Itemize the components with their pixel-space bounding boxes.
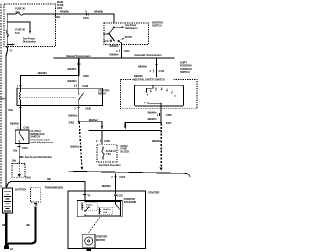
wire relay coil to clutch switch — [10, 106, 30, 131]
svg-text:Distribution: Distribution — [125, 27, 138, 30]
svg-text:MOTOR: MOTOR — [96, 238, 105, 242]
wire solenoid bottom rail — [85, 214, 120, 216]
wire neutral safety out to S447 — [148, 106, 172, 123]
wire arrow to power distribution lower — [7, 43, 15, 45]
svg-text:Wht/Blk: Wht/Blk — [94, 10, 103, 14]
ignition switch box (dashed) — [104, 23, 149, 45]
svg-text:SWITCH: SWITCH — [180, 70, 190, 74]
svg-text:BAT: BAT — [103, 32, 108, 36]
svg-text:Closed with clutch: Closed with clutch — [31, 138, 51, 141]
svg-text:pedal fully depressed: pedal fully depressed — [31, 142, 54, 144]
svg-text:Blk/Wht: Blk/Wht — [152, 139, 161, 143]
wire S447 branch to bus — [124, 123, 161, 130]
wire transmission bus — [54, 57, 175, 59]
wire S463 down to starter rail — [70, 122, 83, 170]
svg-text:SOLENOID: SOLENOID — [124, 200, 137, 204]
svg-text:C410: C410 — [83, 16, 89, 20]
svg-text:STARTER: STARTER — [148, 190, 159, 194]
wire S463 branch to bus — [79, 118, 103, 130]
svg-text:C412: C412 — [124, 49, 130, 53]
starter box STARTER — [68, 191, 146, 249]
svg-text:Blk/Wht: Blk/Wht — [102, 184, 111, 188]
switch solenoid left contact — [84, 206, 89, 216]
svg-text:S409: S409 — [83, 74, 89, 78]
ground G1 — [4, 246, 14, 251]
svg-text:Blk/Wht: Blk/Wht — [110, 53, 119, 57]
fuse FUSE 30 — [7, 7, 56, 16]
fuse FUSE 36 — [6, 28, 25, 37]
ground G401 — [12, 162, 31, 179]
svg-text:Manual Transmission: Manual Transmission — [66, 54, 91, 58]
terminal T1 — [6, 48, 13, 53]
svg-text:S447: S447 — [166, 121, 172, 125]
terminal T2 — [83, 191, 91, 201]
svg-text:BATTERY: BATTERY — [15, 188, 27, 192]
svg-text:Wht: Wht — [8, 108, 13, 112]
svg-text:C439: C439 — [85, 107, 91, 111]
svg-text:Blk/Red: Blk/Red — [69, 114, 78, 118]
connector 3 C412 — [116, 49, 130, 53]
wire solenoid top rail — [85, 200, 120, 214]
wire S447 down to starter rail — [152, 124, 163, 172]
wire battery negative cable — [5, 213, 7, 246]
svg-text:Blk/Wht: Blk/Wht — [148, 110, 157, 114]
svg-text:Blk/Wht: Blk/Wht — [10, 121, 19, 125]
svg-text:C415: C415 — [158, 69, 164, 73]
relay coil — [20, 88, 21, 105]
svg-text:Blk/Wht: Blk/Wht — [138, 64, 147, 68]
svg-text:C460: C460 — [104, 139, 110, 143]
wire drop to dash fuse block — [96, 130, 110, 144]
svg-text:SWITCH: SWITCH — [152, 24, 162, 28]
page-edge dashed line — [0, 4, 2, 188]
switch neutral safety inner box — [135, 85, 184, 106]
wire manual drop to S409 — [68, 58, 81, 75]
terminal C119 — [114, 194, 124, 201]
main fuse box MAIN FUSE BOX (dashed) — [4, 4, 56, 47]
svg-text:RELAY: RELAY — [98, 92, 106, 96]
svg-text:G401: G401 — [25, 176, 32, 180]
wire relay linkage (dashed) — [22, 96, 77, 98]
svg-text:C119: C119 — [117, 194, 123, 198]
node S463 — [78, 120, 80, 122]
svg-text:Blk/Wht: Blk/Wht — [110, 44, 119, 48]
wire battery positive rail — [7, 182, 85, 191]
switch solenoid right contact — [115, 200, 121, 216]
svg-text:Blk/Wht: Blk/Wht — [38, 71, 47, 75]
svg-text:Blk/Wht: Blk/Wht — [148, 117, 157, 121]
svg-text:Blk/Wht: Blk/Wht — [68, 67, 77, 71]
wire starter signal rail — [69, 171, 191, 177]
svg-text:Blk/Red: Blk/Red — [89, 118, 98, 122]
wire C216 drop to starter — [102, 173, 126, 194]
motor STARTER MOTOR — [83, 234, 95, 251]
wire C415 drop (automatic) — [134, 58, 165, 79]
svg-text:S463: S463 — [69, 121, 75, 125]
svg-text:7.5A: 7.5A — [15, 31, 20, 35]
svg-text:Wht: Wht — [0, 96, 5, 100]
svg-text:NEUTRAL SAFETY SWITCH: NEUTRAL SAFETY SWITCH — [133, 78, 165, 82]
node S447 — [160, 122, 162, 124]
transmission box (dashed) — [31, 188, 41, 202]
coil pull-in — [81, 203, 97, 211]
wire ignition to C412 — [121, 45, 123, 58]
connector 2 C416 — [13, 144, 28, 164]
battery — [2, 188, 12, 213]
svg-text:START: START — [125, 36, 133, 39]
svg-text:Coil: Coil — [103, 212, 108, 214]
wire main riser to battery — [6, 47, 7, 188]
svg-text:BOX: BOX — [57, 6, 63, 10]
svg-text:SWITCH: SWITCH — [31, 135, 41, 139]
switch clutch interlock — [15, 130, 29, 143]
fuse FUSE 31 dash fuse block — [97, 144, 117, 162]
svg-text:C406: C406 — [166, 113, 172, 117]
node S409 — [78, 75, 80, 77]
svg-text:10A: 10A — [15, 10, 20, 14]
solenoid STARTER SOLENOID — [77, 200, 122, 216]
wire fuse box to ignition switch — [56, 14, 114, 23]
svg-text:C439: C439 — [82, 84, 88, 88]
coil hold-in — [99, 207, 113, 215]
wire see power distribution arrow — [114, 24, 138, 30]
svg-text:Automatic Transmission: Automatic Transmission — [134, 53, 162, 57]
connector A C410 — [83, 10, 89, 20]
wire solenoid to motor — [88, 217, 100, 234]
wire fuse feed bus — [89, 129, 162, 131]
svg-text:C216: C216 — [119, 175, 125, 179]
svg-text:Distribution: Distribution — [23, 40, 37, 44]
terminal T3 — [34, 203, 38, 207]
svg-text:ACC: ACC — [103, 39, 109, 43]
svg-text:See Ground Distribution: See Ground Distribution — [25, 155, 53, 159]
svg-text:C416: C416 — [22, 146, 28, 150]
wire branch to relay coil — [17, 71, 79, 88]
svg-text:See Dash Fuse Box: See Dash Fuse Box — [99, 163, 122, 167]
relay STARTER RELAY — [17, 88, 103, 105]
connector C439 relay contact out — [69, 106, 92, 122]
svg-text:7.5A: 7.5A — [106, 152, 111, 156]
switch relay contact — [78, 88, 84, 105]
svg-text:Blk/Wht: Blk/Wht — [68, 79, 77, 83]
node ignition BAT junction — [113, 26, 115, 28]
wire branch to power distribution — [7, 21, 32, 34]
svg-text:T392: T392 — [55, 15, 61, 19]
node See Ground Distribution — [12, 155, 52, 162]
switch ignition contacts — [103, 27, 132, 44]
svg-text:Wht/Blk: Wht/Blk — [60, 10, 69, 14]
switch neutral safety (dashed enclosure) — [121, 80, 198, 109]
wire transmission ground cable — [6, 207, 35, 246]
svg-text:C416: C416 — [23, 126, 29, 130]
wire S409 to relay contact — [68, 76, 89, 89]
wire battery feed riser — [6, 14, 8, 47]
svg-text:Blk/Red: Blk/Red — [70, 145, 79, 149]
svg-text:BLOCK: BLOCK — [121, 150, 130, 154]
svg-text:TRANSMISSION: TRANSMISSION — [45, 185, 64, 189]
